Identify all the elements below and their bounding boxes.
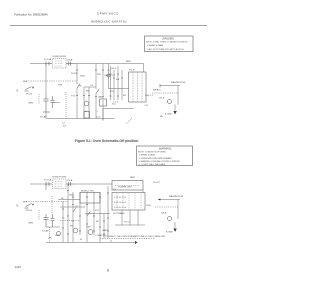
relay contact block (84, 112, 90, 119)
HV bottom link (115, 224, 145, 226)
svg-text:2. ALL VOLT/TUBE CKL SEPT. AU: 2. ALL VOLT/TUBE CKL SEPT. AU FULL. (147, 48, 186, 51)
svg-text:1327: 1327 (15, 265, 22, 269)
fan motor FM vertical (88, 87, 90, 119)
svg-text:DOOR: DOOR (71, 73, 78, 75)
svg-text:SW: SW (116, 79, 119, 81)
svg-text:N.C.: N.C. (112, 104, 117, 106)
plug contact dot (32, 87, 33, 88)
svg-text:SW1: SW1 (69, 195, 75, 197)
svg-text:F1 15A: F1 15A (44, 58, 52, 61)
switch blade b2 (87, 212, 90, 217)
svg-text:W/BND,(SC-60AATK): W/BND,(SC-60AATK) (91, 20, 127, 24)
magnetron feed wire (160, 85, 180, 87)
connector pin ticks row2 (76, 96, 97, 97)
control board U1 box (129, 72, 147, 102)
note box 2 (warning note, schematic 2) (137, 146, 193, 166)
svg-text:WH: WH (23, 202, 27, 204)
wire drop CN (108, 64, 110, 89)
plug P1 (25, 87, 32, 92)
connector pin ticks 2 row2 (67, 216, 109, 227)
bottom rail schematic 2 (46, 242, 135, 244)
svg-text:Figure 5-1: Oven Schematic-Of: Figure 5-1: Oven Schematic-Off position. (75, 139, 139, 143)
extra vertical v104 (103, 214, 105, 239)
svg-text:PLUG: PLUG (26, 210, 32, 212)
bottom rail schematic1 (46, 118, 115, 120)
center verticals group (68, 184, 108, 243)
wire left drop from fuse node (45, 64, 47, 96)
connector pin ticks row1 (76, 69, 110, 71)
cross wire y199 (58, 199, 80, 201)
connector CN-A ticks (66, 62, 75, 66)
ground wire dashed (38, 94, 40, 104)
svg-text:(WARNING): (WARNING) (159, 147, 172, 150)
wire cap link (53, 102, 61, 104)
noise filter internals b (55, 182, 63, 187)
svg-text:1. SHWR & DATA.: 1. SHWR & DATA. (139, 154, 156, 157)
svg-text:GRN: GRN (28, 223, 33, 225)
svg-text:CN-A: CN-A (67, 179, 73, 182)
junction bar (43, 111, 50, 113)
svg-text:NOISE FILTER: NOISE FILTER (53, 177, 67, 179)
svg-text:BRN: BRN (130, 177, 135, 179)
wire cap bottom link (46, 226, 60, 228)
svg-text:CAVITY TC: CAVITY TC (104, 74, 116, 77)
svg-text:FM: FM (86, 91, 89, 93)
svg-text:TTM: TTM (86, 227, 91, 229)
magnetron MG1b body (167, 216, 171, 220)
svg-text:C.LAMP 1.2: C.LAMP 1.2 (95, 234, 107, 237)
relay switch SW3 vertical (95, 64, 97, 119)
cross wire y220 (60, 220, 80, 222)
plug contact dot b (32, 204, 33, 205)
wire AC line in 2 (30, 183, 45, 185)
turntable motor TTM (84, 101, 89, 106)
junction to bottom rail (45, 112, 47, 119)
HV drop wire 2 (177, 200, 179, 220)
wire top rail end drop (143, 64, 145, 73)
svg-text:CN: CN (145, 105, 149, 107)
wire to bottom rail 2 (49, 227, 51, 243)
power unit inner dashes (115, 185, 140, 187)
svg-text:H.CAP: H.CAP (42, 230, 49, 233)
rail end arrow (135, 241, 138, 244)
svg-text:8: 8 (107, 268, 109, 272)
capacitor C2 (51, 96, 55, 108)
feed arrowhead (158, 199, 160, 201)
svg-text:LAMP: LAMP (102, 229, 108, 232)
door switch SW1 vertical (76, 64, 78, 119)
earth symbol (49, 237, 52, 238)
fan motor FMb (73, 228, 78, 233)
cross wire y213 (85, 213, 110, 215)
svg-text:CN-B: CN-B (159, 98, 165, 100)
svg-text:H.V.TRANS: H.V.TRANS (113, 212, 125, 215)
capacitor C1 (44, 95, 49, 112)
svg-text:CN-F 1 2: CN-F 1 2 (145, 95, 154, 97)
wire top rail 2 (75, 183, 112, 185)
header rule (10, 25, 207, 27)
svg-text:N.OUT: N.OUT (153, 182, 160, 184)
wire AC line in (30, 63, 45, 65)
svg-text:N: N (17, 205, 19, 208)
wire top rail (75, 63, 144, 65)
svg-text:CN-B: CN-B (161, 213, 167, 215)
fuse F1 (45, 62, 52, 66)
HV transformer T1 box (112, 193, 145, 211)
svg-text:NO: NO (123, 95, 126, 97)
turntable motor TTMb (88, 230, 93, 235)
svg-text:NOISE FILTER: NOISE FILTER (53, 56, 67, 58)
HV drop wire (177, 86, 179, 105)
connector pin ticks 2 row3 (67, 231, 109, 234)
cross wire y207 (60, 206, 85, 208)
svg-text:(DANGER): (DANGER) (162, 37, 174, 40)
note box 1 (danger note, schematic 1) (145, 36, 194, 52)
switch blade b1 (73, 208, 76, 213)
chassis ground triangle b (173, 229, 176, 232)
wire neutral dashed (26, 80, 77, 82)
svg-text:BRN: BRN (126, 61, 131, 63)
wire rail step (102, 100, 104, 121)
wire left dashed drop 2 (51, 196, 53, 214)
svg-text:4. TO NOT CALL THE LINES.: 4. TO NOT CALL THE LINES. (139, 163, 167, 166)
control board internal pins (133, 72, 142, 102)
connector CN-A b ticks (66, 182, 75, 186)
svg-text:CPMV-60CC: CPMV-60CC (97, 12, 119, 16)
svg-text:H.V.C: H.V.C (124, 222, 130, 224)
svg-text:CN-A: CN-A (67, 59, 73, 62)
noise filter internals (55, 61, 63, 66)
svg-text:E.GND: E.GND (166, 232, 173, 234)
svg-text:GRN: GRN (28, 103, 33, 105)
magnetron MG1 body (167, 99, 171, 103)
cluster pin ticks (110, 74, 124, 96)
svg-text:GRN: GRN (55, 235, 60, 237)
HV dashed wire 2 (155, 206, 178, 208)
fuse F1b (45, 182, 52, 186)
capacitor C2b (51, 214, 55, 227)
plug P1b (25, 204, 32, 209)
dashed return wire (65, 92, 67, 119)
capacitor C1b (44, 214, 49, 227)
wire diagonal strain (128, 118, 132, 122)
svg-text:2.1 3.3 1.5 2.2: 2.1 3.3 1.5 2.2 (114, 197, 126, 199)
svg-text:N: N (17, 90, 19, 93)
svg-text:1. SHWR & DATA.: 1. SHWR & DATA. (147, 44, 164, 47)
connector pin ticks 2 row1 (67, 191, 109, 198)
svg-text:POWER UNIT: POWER UNIT (118, 187, 133, 189)
svg-text:F1 15A: F1 15A (44, 179, 52, 182)
wire from power unit down (142, 190, 144, 193)
svg-text:P.C.B: P.C.B (129, 70, 135, 72)
power unit box (112, 181, 143, 191)
svg-text:NOTE: COND. THRU CT MONITOR CH: NOTE: COND. THRU CT MONITOR CHECK. (146, 42, 188, 44)
HV cap verticals (122, 210, 138, 225)
noise filter NF1 (dashed box) (53, 59, 67, 69)
svg-text:0.3 1.1 4.0 0.2: 0.3 1.1 4.0 0.2 (114, 202, 126, 204)
wire interlock link (84, 86, 96, 88)
noise filter NF1b dashed box (53, 179, 67, 189)
svg-text:CN-E: CN-E (146, 205, 152, 207)
extra vertical v63 (62, 202, 64, 243)
T1 internal pins (117, 193, 141, 211)
svg-text:CN-C: CN-C (111, 68, 117, 70)
svg-text:SELECT SW: SELECT SW (81, 191, 95, 193)
magnetron feed tick (159, 84, 161, 88)
wire left drop 2 (45, 184, 47, 190)
monitor switch SW2 vertical (83, 87, 85, 119)
selector box (80, 193, 100, 204)
oven lamp L1 vertical (102, 64, 104, 121)
ground wire dashed b (38, 210, 40, 220)
annotation dashed line (100, 238, 155, 240)
svg-text:2. UNKNOWN THIS PERFORMANT.: 2. UNKNOWN THIS PERFORMANT. (139, 157, 173, 160)
svg-text:H.CAP: H.CAP (40, 116, 47, 119)
svg-text:NOTE: CONDITION OF WIRE.: NOTE: CONDITION OF WIRE. (138, 152, 167, 154)
svg-text:WH BLK: WH BLK (153, 90, 161, 92)
svg-text:3. MARKED CONSUME CONTROL "EN: 3. MARKED CONSUME CONTROL "ENTER" (139, 160, 181, 163)
ground lead b (174, 222, 176, 228)
svg-text:SW2: SW2 (80, 76, 86, 78)
svg-text:PLUG: PLUG (26, 94, 32, 96)
oven lamp L1 body (100, 99, 107, 106)
chassis ground triangle (173, 111, 176, 114)
svg-text:1.2 2.4 3.1 1.0: 1.2 2.4 3.1 1.0 (114, 207, 126, 209)
svg-text:MAGNETRON: MAGNETRON (171, 81, 186, 84)
connector pin ticks 2 row4 (62, 205, 105, 235)
svg-text:MAGNETRON: MAGNETRON (169, 195, 184, 198)
control cluster verticals (111, 66, 123, 100)
relay switch SW3 blade (96, 89, 99, 94)
ground lead (174, 105, 176, 111)
svg-text:LAMP: LAMP (98, 96, 104, 99)
magnetron feed wire 2 (158, 199, 180, 201)
svg-text:TTM: TTM (58, 85, 63, 87)
neutral dashed 2 (26, 201, 68, 203)
svg-text:WH: WH (23, 81, 27, 83)
svg-text:E.GND: E.GND (165, 114, 172, 116)
svg-text:TO CONNECT THE OVEN SCHEMATIC: TO CONNECT THE OVEN SCHEMATIC LINE OF TH… (103, 235, 166, 238)
wire cluster cross (109, 88, 129, 90)
bottom rail right segment (103, 108, 134, 110)
thermal cutout TC1 (107, 74, 110, 77)
svg-text:FM: FM (70, 226, 73, 228)
HV dashed wire (152, 92, 178, 94)
door switch SW1 blade (77, 84, 80, 89)
fan motor FM2 small (57, 232, 61, 236)
svg-text:NO: NO (96, 221, 99, 223)
svg-text:Publication No: 5995528846: Publication No: 5995528846 (14, 13, 48, 17)
